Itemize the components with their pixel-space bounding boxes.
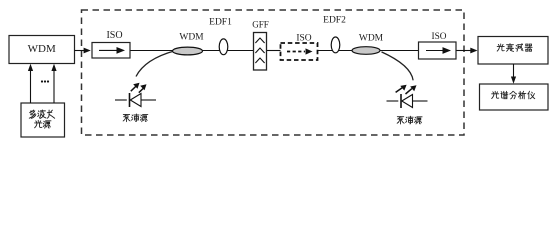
svg-text:GFF: GFF (252, 20, 269, 30)
svg-text:ISO: ISO (296, 34, 311, 44)
svg-text:ISO: ISO (432, 32, 447, 42)
svg-text:ISO: ISO (106, 30, 122, 41)
svg-text:EDF1: EDF1 (209, 17, 232, 27)
svg-text:WDM: WDM (179, 32, 204, 42)
svg-text:WDM: WDM (28, 43, 56, 55)
svg-text:WDM: WDM (359, 34, 384, 44)
svg-text:EDF2: EDF2 (323, 15, 346, 25)
